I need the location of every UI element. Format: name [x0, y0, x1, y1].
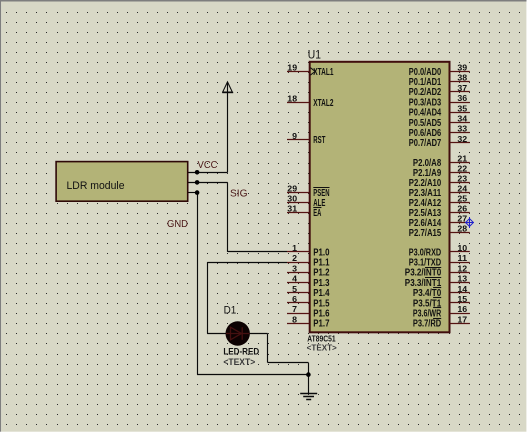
svg-text:24: 24: [457, 184, 467, 194]
svg-text:31: 31: [287, 204, 297, 214]
svg-text:34: 34: [457, 114, 467, 124]
svg-text:15: 15: [457, 294, 467, 304]
svg-text:VCC: VCC: [198, 160, 218, 171]
svg-text:D1: D1: [224, 305, 237, 317]
svg-text:3: 3: [292, 263, 297, 273]
svg-text:36: 36: [457, 93, 467, 103]
svg-text:9: 9: [292, 131, 297, 141]
svg-text:39: 39: [457, 63, 467, 73]
svg-text:22: 22: [457, 164, 467, 174]
svg-text:<TEXT>: <TEXT>: [223, 357, 255, 367]
svg-text:13: 13: [457, 274, 467, 284]
svg-text:P1.7: P1.7: [313, 319, 330, 330]
svg-text:12: 12: [457, 263, 467, 273]
svg-text:10: 10: [457, 243, 467, 253]
svg-text:7: 7: [292, 304, 297, 314]
svg-text:17: 17: [457, 314, 467, 324]
svg-text:16: 16: [457, 304, 467, 314]
svg-text:5: 5: [292, 284, 297, 294]
svg-text:11: 11: [457, 253, 467, 263]
svg-text:LED-RED: LED-RED: [223, 346, 259, 356]
svg-text:P3.7/RD: P3.7/RD: [413, 319, 441, 330]
svg-text:8: 8: [292, 314, 297, 324]
svg-text:29: 29: [287, 184, 297, 194]
svg-text:RST: RST: [313, 135, 325, 146]
svg-text:XTAL1: XTAL1: [313, 67, 333, 78]
svg-text:AT89C51: AT89C51: [307, 335, 336, 344]
svg-text:XTAL2: XTAL2: [313, 98, 333, 109]
svg-text:37: 37: [457, 83, 467, 93]
svg-text:LDR module: LDR module: [67, 180, 125, 192]
svg-text:6: 6: [292, 294, 297, 304]
svg-text:GND: GND: [167, 219, 188, 230]
svg-text:P2.7/A15: P2.7/A15: [409, 228, 442, 239]
svg-text:32: 32: [457, 134, 467, 144]
svg-text:2: 2: [292, 253, 297, 263]
svg-text:38: 38: [457, 73, 467, 83]
svg-text:21: 21: [457, 154, 467, 164]
svg-text:4: 4: [292, 274, 297, 284]
svg-text:SIG: SIG: [230, 188, 248, 199]
svg-text:35: 35: [457, 103, 467, 113]
svg-text:25: 25: [457, 194, 467, 204]
svg-text:18: 18: [287, 94, 297, 104]
svg-text:30: 30: [287, 194, 297, 204]
svg-text:26: 26: [457, 204, 467, 214]
svg-text:P0.7/AD7: P0.7/AD7: [409, 138, 442, 149]
svg-text:28: 28: [457, 224, 467, 234]
svg-text:EA: EA: [313, 208, 321, 219]
svg-text:<TEXT>: <TEXT>: [307, 344, 338, 353]
svg-text:23: 23: [457, 174, 467, 184]
svg-text:U1: U1: [308, 47, 321, 61]
svg-text:14: 14: [457, 284, 467, 294]
svg-text:33: 33: [457, 124, 467, 134]
svg-text:1: 1: [292, 243, 297, 253]
svg-text:19: 19: [287, 63, 297, 73]
